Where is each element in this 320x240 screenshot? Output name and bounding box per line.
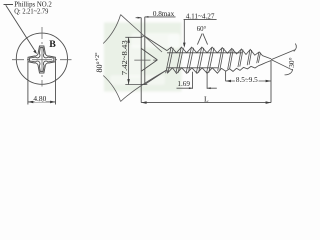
- dimension 1.69: [177, 72, 217, 89]
- extension line left: [225, 72, 227, 82]
- lower leg: [271, 60, 293, 71]
- upper squiggle: [294, 44, 296, 52]
- outside arrow tails: [177, 87, 217, 89]
- watermark lighter inner patches: [110, 33, 181, 85]
- svg-text:60°: 60°: [197, 26, 207, 33]
- svg-text:B: B: [49, 39, 56, 50]
- svg-text:1.69: 1.69: [177, 80, 190, 88]
- upper leg: [271, 50, 295, 60]
- countersink cone bottom edge: [145, 70, 167, 85]
- 30 degree tip angle: [271, 44, 296, 75]
- vertical dimension line: [128, 37, 130, 84]
- svg-text:7.42~8.43: 7.42~8.43: [120, 40, 129, 75]
- thread blades (double slanted lines): [166, 47, 261, 73]
- svg-text:4.11~4.27: 4.11~4.27: [186, 12, 215, 20]
- vertical centerline: [41, 27, 43, 87]
- svg-text:4.80: 4.80: [33, 94, 46, 103]
- arrowheads 8.5~9.5: [226, 80, 271, 83]
- head face vertical line + L extension: [140, 18, 142, 103]
- arrowheads L: [141, 101, 271, 104]
- svg-text:30°: 30°: [287, 57, 296, 67]
- land vertical line: [144, 17, 146, 85]
- 80 degree construction: lower leg: [121, 70, 167, 102]
- svg-text:Q: 2.21~2.79: Q: 2.21~2.79: [14, 6, 48, 15]
- svg-text:L: L: [204, 95, 209, 104]
- dimension line: [28, 101, 56, 103]
- head circle (top view): [16, 33, 67, 84]
- arrowhead 4.11 leader: [183, 43, 186, 48]
- leader arrowhead: [33, 50, 37, 54]
- horizontal centerline: [12, 59, 72, 61]
- left tail: [136, 17, 142, 19]
- extension lines: [193, 72, 208, 89]
- dimension L: [141, 60, 271, 102]
- node: top view group: [4, 5, 72, 87]
- thread crest zigzag top: [167, 47, 271, 73]
- recess V bottom flank: [141, 60, 157, 71]
- svg-text:0.8max: 0.8max: [153, 10, 175, 18]
- arrowheads 0.8max: [138, 16, 149, 19]
- arrowheads 4.80: [28, 101, 56, 104]
- extension line left (from cross W tip): [27, 62, 29, 105]
- shelf: [184, 18, 217, 20]
- extension top: [125, 36, 142, 38]
- root cylinder bottom line: [167, 67, 218, 69]
- side view axis centerline stub: [134, 59, 157, 61]
- right extension from tip: [270, 60, 272, 102]
- leader down: [183, 19, 185, 46]
- root cylinder top line: [167, 52, 242, 54]
- arrowheads 1.69: [189, 87, 211, 89]
- lower squiggle: [285, 69, 293, 75]
- 80 degree arc upper part: [103, 15, 120, 44]
- dimension 4.80: [28, 62, 56, 105]
- svg-text:8.5~9.5: 8.5~9.5: [236, 76, 258, 84]
- recess V top flank: [141, 48, 157, 60]
- leader line from label to recess: [4, 5, 36, 52]
- extension bottom: [125, 84, 147, 86]
- shelf: [145, 16, 176, 18]
- extension line right (from cross E tip): [55, 62, 57, 105]
- dimension line: [226, 80, 271, 82]
- dimension 4.11~4.27: [184, 19, 217, 46]
- dimension 7.42~8.43: [125, 37, 147, 84]
- dimension 0.8max: [136, 16, 176, 19]
- watermark pale green block: [104, 23, 182, 92]
- arrowheads 7.42: [127, 37, 130, 84]
- thread crest zigzag bottom + taper wave: [167, 61, 271, 74]
- 80 degree construction: upper leg: [103, 15, 167, 102]
- svg-text:80°+2°: 80°+2°: [94, 52, 104, 73]
- dimension 8.5~9.5: [226, 72, 271, 82]
- head land bottom silhouette: [141, 83, 145, 85]
- taper blades: [218, 48, 224, 71]
- 60 degree angle marks: [197, 34, 207, 45]
- head land top silhouette: [141, 35, 145, 37]
- 80 degree arc lower part: [103, 76, 120, 102]
- countersink cone top edge: [145, 36, 167, 50]
- dimension line: [141, 102, 271, 104]
- phillips recess outer contour: [28, 46, 55, 73]
- phillips recess inner contour: [30, 48, 54, 72]
